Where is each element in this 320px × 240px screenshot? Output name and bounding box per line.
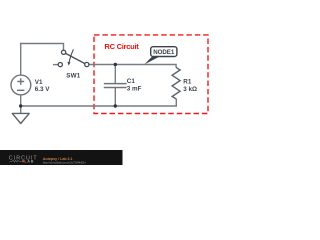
voltage source V1 <box>11 75 31 95</box>
svg-text:LAB: LAB <box>24 160 34 164</box>
capacitor C1 plates <box>104 84 127 88</box>
svg-text:RC Circuit: RC Circuit <box>104 42 139 51</box>
ground <box>12 113 29 123</box>
node flag NODE1 bubble <box>151 47 177 57</box>
switch SW1 <box>58 49 89 66</box>
node dot top (NODE1 net) <box>114 63 117 66</box>
svg-text:3 kΩ: 3 kΩ <box>183 86 197 93</box>
watermark logo wave + LAB <box>10 160 22 162</box>
node dot at ground junction <box>19 104 22 107</box>
svg-text:R1: R1 <box>183 78 192 85</box>
wire ground lead <box>20 106 22 113</box>
wire switch common to resistor top <box>89 65 176 68</box>
svg-text:http://circuitlab.com/c2y7284k: http://circuitlab.com/c2y7284k82n <box>43 160 86 164</box>
actuation arrow <box>69 49 73 62</box>
svg-text:6.3 V: 6.3 V <box>35 86 51 93</box>
wire bottom rail <box>21 99 177 106</box>
svg-text:3 mF: 3 mF <box>127 85 142 92</box>
svg-text:SW1: SW1 <box>66 72 80 79</box>
terminal circles <box>62 50 66 54</box>
lever <box>66 53 85 63</box>
node flag NODE1 tail <box>144 57 159 65</box>
svg-text:NODE1: NODE1 <box>153 49 175 56</box>
svg-text:C1: C1 <box>127 78 136 85</box>
dashed boundary box "RC Circuit" <box>94 35 208 114</box>
resistor R1 zigzag <box>172 67 180 99</box>
wire capacitor bottom lead <box>114 88 116 106</box>
watermark bar <box>0 150 123 165</box>
wire capacitor top lead <box>114 65 116 84</box>
node dot bottom <box>114 104 117 107</box>
wire V1 top to switch throw <box>21 44 64 76</box>
wire V1 bottom lead <box>20 95 22 106</box>
wire stub at open switch throw <box>53 64 58 66</box>
